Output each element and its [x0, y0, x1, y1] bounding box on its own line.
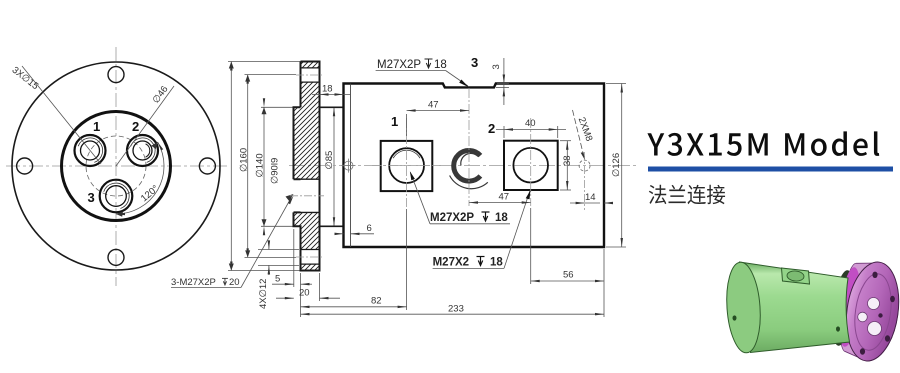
body outline: [344, 84, 605, 248]
svg-text:3: 3: [471, 55, 478, 70]
port bolt circle D46 (dashed): [86, 136, 146, 196]
svg-text:1: 1: [93, 119, 100, 134]
dim D140: [245, 75, 297, 258]
port 2 circle: [513, 148, 548, 183]
centerline vertical: [115, 47, 117, 286]
title: [647, 131, 879, 155]
inner wall line: [350, 84, 352, 248]
svg-text:2: 2: [488, 121, 495, 136]
flange outer circle D160: [12, 62, 220, 270]
dim 233: [603, 249, 605, 317]
leader D46: [116, 86, 174, 166]
120 deg arc with arrows: [116, 142, 164, 214]
center holes on flange face: [868, 298, 880, 310]
flange section outline: [294, 62, 344, 271]
svg-text:18: 18: [490, 257, 503, 269]
port 2 outer: [127, 135, 158, 166]
svg-text:20: 20: [299, 288, 310, 299]
port 2 inner: [133, 141, 152, 160]
port 1 outer: [75, 135, 106, 166]
port 3 outer: [100, 180, 133, 213]
svg-text:18: 18: [495, 212, 508, 224]
svg-text:M27X2P: M27X2P: [430, 212, 474, 224]
dim D126: [621, 84, 623, 248]
dim D85 neck: [333, 107, 335, 226]
svg-text:14: 14: [585, 192, 596, 203]
boss circle D90l9 (bold): [62, 112, 171, 221]
svg-text:47: 47: [499, 192, 510, 203]
svg-text:M27X2: M27X2: [433, 257, 469, 269]
dim 82: [300, 273, 302, 317]
port 1 thread arc: [78, 138, 102, 162]
svg-text:3-M27X2P: 3-M27X2P: [171, 277, 216, 288]
M6 hole dashed circle: [579, 160, 590, 171]
svg-text:82: 82: [371, 296, 382, 307]
svg-text:18: 18: [322, 84, 333, 95]
flange inner ring: [850, 271, 895, 352]
bolt hole top: [108, 67, 124, 83]
small screw dots: [733, 315, 737, 320]
svg-text:3: 3: [491, 64, 502, 69]
centerline horizontal: [6, 165, 229, 167]
svg-text:∅90l9: ∅90l9: [270, 158, 281, 184]
dimension arrowheads (all dims): [116, 62, 623, 316]
svg-text:20: 20: [229, 277, 240, 288]
leader 3xD15: [22, 66, 101, 164]
svg-text:233: 233: [448, 304, 464, 315]
port 3 thread arc: [104, 183, 129, 208]
dim D160: [228, 62, 301, 271]
flange silhouette (rim tangents): [840, 263, 898, 361]
bolt hole bottom: [108, 249, 124, 265]
green body: [740, 262, 850, 353]
svg-text:38: 38: [562, 155, 573, 166]
dim D90l9: [261, 107, 294, 226]
blue rule: [648, 167, 893, 172]
rim dark shadow ring: [828, 269, 857, 347]
center mark left: [342, 159, 356, 173]
neck lines: [320, 107, 344, 226]
svg-text:6: 6: [367, 223, 372, 234]
CJK subtitle 法兰连接: [649, 185, 725, 204]
dim 5: [272, 283, 294, 285]
svg-text:47: 47: [428, 100, 439, 111]
left end cap: [724, 261, 763, 354]
leader underline to section: [171, 287, 241, 289]
svg-text:2: 2: [132, 119, 139, 134]
bolt hole left: [17, 158, 33, 174]
port 1 axis: [406, 118, 408, 207]
bolt hole right: [199, 158, 215, 174]
svg-text:∅126: ∅126: [611, 153, 622, 177]
dim 14: [570, 202, 600, 204]
port 1 circle: [389, 148, 424, 183]
bolt hole gaps: [301, 68, 320, 264]
dim 6: [336, 233, 344, 235]
C logo: [450, 151, 488, 189]
port hole in flange: [301, 179, 320, 212]
main horizontal centerline: [289, 165, 638, 167]
port 3 inner: [106, 186, 127, 207]
flange port axis: [290, 195, 324, 197]
port 1 thread arc: [393, 150, 420, 158]
bolt holes on flange: [872, 272, 877, 278]
svg-text:3: 3: [88, 190, 95, 205]
flange disc face: [840, 259, 900, 365]
flange bolt hole axes: [296, 74, 324, 76]
dim 18 (flange to body): [312, 93, 351, 95]
port 2 thread arc: [131, 138, 155, 162]
port 1 boss square: [381, 141, 433, 191]
dim 47 bottom: [469, 202, 531, 204]
svg-text:18: 18: [434, 59, 447, 71]
dim 3 notch: [503, 58, 505, 105]
port 2 boss square: [504, 141, 558, 190]
svg-text:56: 56: [563, 270, 574, 281]
dim 20: [276, 297, 294, 299]
port 2 thread runout crescent: [146, 144, 150, 157]
dim 38: [566, 141, 568, 190]
dim 47 top: [407, 110, 469, 112]
svg-text:5: 5: [275, 274, 280, 285]
dim 4xD12: [268, 240, 270, 250]
port 2 axis: [530, 118, 532, 206]
svg-text:∅85: ∅85: [324, 151, 335, 170]
port 1 h-centerline: [372, 165, 441, 167]
top boss: [782, 268, 810, 284]
3D product render: [724, 259, 900, 365]
dim 40: [496, 128, 566, 130]
svg-text:1: 1: [391, 114, 398, 129]
svg-text:40: 40: [525, 118, 536, 129]
dim 56: [530, 208, 532, 284]
center axis x=469: [468, 88, 470, 206]
magenta accent ring: [835, 266, 864, 348]
svg-text:4X∅12: 4X∅12: [258, 279, 269, 309]
svg-text:M27X2P: M27X2P: [377, 59, 421, 71]
port 1 inner: [81, 141, 100, 160]
